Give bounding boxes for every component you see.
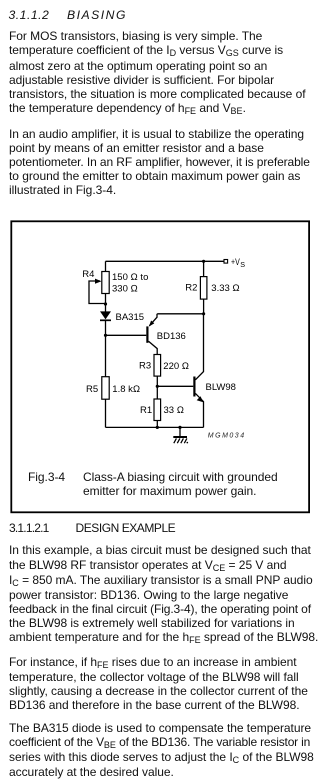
svg-text:1.8 kΩ: 1.8 kΩ xyxy=(112,384,140,395)
node dot emitter rail xyxy=(202,312,205,315)
wire R4 branch top xyxy=(105,261,107,271)
paragraph 3 xyxy=(9,543,318,645)
node dot top rail xyxy=(202,260,205,263)
resistor R5 xyxy=(102,377,109,400)
svg-text:R1: R1 xyxy=(140,405,152,416)
transistor BLW98 emitter xyxy=(195,393,203,427)
wire left branch to R5 xyxy=(105,335,107,376)
node dot R4 wiper xyxy=(104,302,107,305)
svg-text:R3: R3 xyxy=(139,361,151,372)
svg-text:BD136: BD136 xyxy=(157,331,186,342)
resistor R2 xyxy=(200,277,207,300)
terminal +VS square xyxy=(224,260,228,264)
svg-text:S: S xyxy=(240,260,245,269)
resistor R3 xyxy=(154,355,161,377)
wire R2 bottom xyxy=(203,299,205,314)
transistor BD136 emitter xyxy=(149,314,157,326)
node dot R3 bottom xyxy=(156,385,159,388)
svg-text:330 Ω: 330 Ω xyxy=(112,284,138,295)
svg-text:3.33 Ω: 3.33 Ω xyxy=(211,283,239,294)
transistor BD136 collector xyxy=(149,341,158,354)
figure frame xyxy=(11,221,309,512)
transistor BLW98 collector xyxy=(195,314,203,380)
svg-text:R5: R5 xyxy=(86,384,98,395)
svg-text:MGM034: MGM034 xyxy=(208,432,246,439)
paragraph 4 xyxy=(9,655,308,713)
wire node to BD136 base xyxy=(106,334,147,336)
svg-text:33 Ω: 33 Ω xyxy=(164,405,185,416)
R4 wiper arrowhead xyxy=(95,279,102,284)
svg-text:150 Ω to: 150 Ω to xyxy=(112,272,148,283)
wire top rail xyxy=(106,260,225,262)
diode BA315 xyxy=(100,311,111,319)
node dot R1 bottom rail xyxy=(156,426,159,429)
svg-text:BA315: BA315 xyxy=(116,312,145,323)
svg-text:R4: R4 xyxy=(82,269,94,280)
wire diode to node xyxy=(105,321,107,336)
figure caption xyxy=(28,470,65,484)
svg-text:+V: +V xyxy=(231,257,240,267)
wire node to BLW98 base xyxy=(157,385,193,387)
heading 3.1.1.2 BIASING xyxy=(9,8,50,22)
paragraph 1 xyxy=(9,29,306,116)
paragraph 2 xyxy=(9,127,310,198)
resistor R4 (variable) xyxy=(102,272,109,294)
ground xyxy=(179,427,181,436)
wire node to R1 xyxy=(156,386,158,399)
resistor R1 xyxy=(154,399,161,421)
wire bottom rail xyxy=(106,426,204,428)
wire R4 wiper return xyxy=(89,281,106,304)
transistor BD136 base bar xyxy=(146,326,148,342)
node dot ground tap xyxy=(178,426,181,429)
wire R2 top xyxy=(203,261,205,276)
svg-text:BLW98: BLW98 xyxy=(206,382,236,393)
heading 3.1.1.2.1 DESIGN EXAMPLE xyxy=(9,521,49,535)
paragraph 5 xyxy=(9,721,314,780)
wire R4 bottom to diode xyxy=(105,294,107,312)
transistor BLW98 base bar xyxy=(193,377,195,397)
svg-text:R2: R2 xyxy=(185,283,197,294)
wire BD136 emitter rail xyxy=(157,313,203,315)
node dot diode bottom xyxy=(104,334,107,337)
wire R5 to bottom rail xyxy=(105,399,107,427)
svg-text:220 Ω: 220 Ω xyxy=(163,361,189,372)
wire R1 bottom xyxy=(156,421,158,428)
wire R3 bottom to node xyxy=(156,376,158,386)
